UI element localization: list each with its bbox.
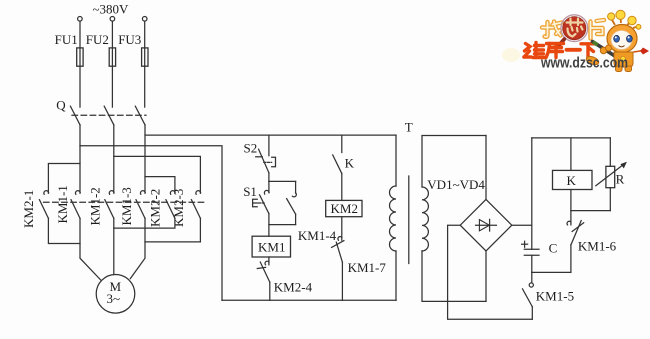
fuse FU2: [109, 48, 115, 66]
mascot legs: [616, 66, 632, 72]
svg-text:KM1-2: KM1-2: [88, 187, 103, 225]
wire fuse2 to Q: [111, 66, 113, 107]
wire control left rail: [80, 146, 222, 301]
relay coil K: [553, 138, 593, 211]
switch Q blade 2: [104, 106, 114, 125]
wire motor lead 1: [80, 218, 101, 280]
wire bridge AC top: [485, 136, 487, 200]
mascot body: [614, 52, 633, 67]
wire fuse1 to Q: [79, 66, 81, 107]
svg-text:FU3: FU3: [118, 32, 141, 47]
diode symbol: [476, 219, 497, 231]
mascot stick band: [593, 42, 598, 45]
svg-text:R: R: [616, 172, 625, 187]
coil KM1: [252, 236, 290, 257]
rectifier bridge VD1~VD4: [460, 199, 512, 251]
contact KM2-3: [191, 191, 200, 219]
wire control bottom rail: [222, 299, 396, 301]
svg-text:Q: Q: [56, 98, 66, 113]
wire L2 to fuse: [111, 21, 113, 48]
wire KM2-3 bottom: [145, 218, 200, 242]
wire L1 to fuse: [79, 21, 81, 48]
svg-text:T: T: [405, 120, 413, 135]
pushbutton S1: [253, 181, 270, 236]
wire K R top rail: [532, 137, 611, 139]
svg-text:VD1~VD4: VD1~VD4: [427, 177, 485, 192]
svg-text:KM1-7: KM1-7: [348, 260, 387, 275]
svg-text:~380V: ~380V: [93, 2, 130, 17]
svg-text:S2: S2: [244, 140, 258, 155]
mascot fists: [600, 45, 611, 54]
contact KM1-6: [567, 211, 584, 273]
svg-text:KM1-6: KM1-6: [578, 239, 617, 254]
wire KM2-1 bottom: [48, 218, 80, 243]
wire phase3 vertical: [144, 125, 146, 193]
svg-text:K: K: [567, 173, 577, 188]
capacitor plus sign: [522, 241, 528, 247]
contact KM1-4: [287, 181, 297, 224]
TRANSFORMER RECTIFIER: [390, 120, 533, 320]
svg-text:KM1-3: KM1-3: [119, 187, 134, 225]
contact KM2-4: [257, 257, 270, 300]
wire DC plus riser: [531, 138, 533, 249]
contact KM1-5: [523, 272, 534, 319]
svg-text:FU2: FU2: [86, 32, 109, 47]
main contacts linkage dashed: [44, 201, 206, 203]
contact KM1-7: [332, 217, 344, 301]
capacitor C: [524, 249, 539, 272]
CONTROL SECTION: [80, 135, 396, 300]
contact K: [333, 135, 342, 200]
fuse FU1: [77, 48, 83, 66]
logo glow: [502, 48, 520, 62]
svg-text:K: K: [345, 155, 355, 170]
terminal L2: [110, 17, 115, 22]
wire fuse3 to Q: [144, 66, 146, 107]
svg-text:KM2-1: KM2-1: [21, 190, 36, 228]
logo char zhao: [542, 22, 562, 37]
wire bridge DC minus: [448, 225, 533, 319]
DC RELAY SECTION: [522, 138, 627, 319]
switch Q blade 3: [135, 106, 145, 125]
motor M: [96, 275, 135, 314]
LOGO: [502, 10, 649, 71]
svg-text:S1: S1: [243, 184, 257, 199]
mascot eyes: [614, 35, 633, 42]
wire phase1 vertical: [79, 125, 81, 193]
mascot front leg: [585, 55, 600, 67]
resistor R: [596, 138, 627, 211]
svg-text:3~: 3~: [107, 291, 121, 306]
mascot antenna balls: [608, 10, 641, 29]
magnifier with chip char: [557, 15, 587, 47]
logo char ku: [546, 44, 564, 58]
mascot head: [607, 25, 637, 53]
logo char pian: [591, 20, 605, 39]
wire motor lead 3: [130, 218, 145, 278]
svg-text:KM2: KM2: [331, 201, 358, 216]
fuse FU3: [142, 48, 148, 66]
wire bridge AC bottom: [485, 251, 487, 301]
contact KM1-2: [105, 191, 114, 219]
svg-text:KM2-4: KM2-4: [274, 280, 313, 295]
svg-text:FU1: FU1: [55, 32, 78, 47]
MAIN SECTION: [21, 125, 205, 313]
svg-text:KM1-4: KM1-4: [298, 228, 337, 243]
wire KM2-3 top branch: [114, 156, 201, 193]
wire top rail phase3 to transformer: [145, 134, 396, 136]
svg-text:KM2-3: KM2-3: [171, 189, 186, 227]
mascot mouth: [619, 46, 625, 47]
pushbutton S2: [256, 135, 276, 181]
mascot antenna stalks: [612, 17, 638, 28]
coil KM2: [326, 200, 362, 216]
wire cap to KM1-6 bottom: [532, 271, 571, 273]
contact KM1-3: [136, 191, 145, 219]
svg-text:KM1: KM1: [258, 240, 285, 255]
POWER SECTION: [55, 2, 148, 125]
wire KM2-2 bottom: [114, 218, 175, 228]
mascot stick: [593, 42, 615, 56]
logo char yi: [567, 48, 581, 52]
wire KM2-2 top branch: [145, 177, 175, 194]
switch Q linkage dashed: [72, 114, 146, 116]
svg-text:KM2-2: KM2-2: [147, 189, 162, 227]
mascot arm tassel: [634, 48, 650, 55]
wire latch branch bottom: [269, 224, 296, 226]
logo char xia: [581, 44, 596, 58]
wire K R bottom rail: [571, 210, 610, 212]
contact KM2-1: [39, 191, 48, 219]
wire L3 to fuse: [144, 21, 146, 48]
wire latch branch top: [269, 180, 296, 182]
contact KM1-1: [71, 191, 80, 219]
wire phase2 vertical: [113, 125, 115, 193]
switch Q blade 1: [70, 106, 80, 125]
terminal L3: [142, 17, 147, 22]
logo char wei: [524, 43, 545, 58]
svg-text:C: C: [549, 240, 558, 255]
svg-text:KM1-5: KM1-5: [536, 288, 574, 303]
svg-text:www.dzsc.com: www.dzsc.com: [540, 55, 628, 72]
mascot face: [611, 31, 632, 50]
contact KM2-2: [166, 191, 175, 219]
transformer core: [408, 176, 410, 264]
transformer secondary winding: [422, 136, 486, 302]
terminal L1: [78, 17, 83, 22]
svg-text:KM1-1: KM1-1: [55, 185, 70, 223]
wire bridge DC plus: [512, 224, 532, 226]
transformer primary winding: [390, 135, 396, 300]
wire KM2-1 top branch: [48, 164, 80, 194]
wire motor lead 2: [113, 218, 115, 274]
